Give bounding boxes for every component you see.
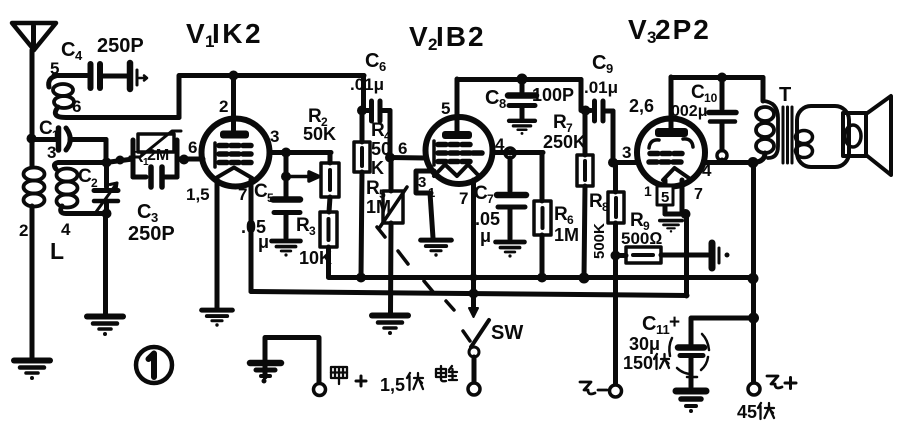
label + (A+) <box>356 376 366 386</box>
label C10 <box>691 82 718 105</box>
wire junction to wiper <box>284 152 289 176</box>
svg-text:C: C <box>137 201 151 223</box>
node R4/bus A <box>356 273 366 283</box>
wire grid junction to V2 pin6 <box>390 155 426 161</box>
wire antenna downlead <box>30 50 35 138</box>
svg-text:C: C <box>691 82 705 103</box>
svg-text:V: V <box>409 21 428 52</box>
label C6 <box>365 50 386 74</box>
resistor R6 <box>534 153 551 277</box>
svg-text:2P2: 2P2 <box>655 14 711 45</box>
terminal B- <box>610 385 622 397</box>
speaker <box>843 96 891 175</box>
label C11 + <box>642 312 680 337</box>
node primary/B+ junction <box>748 157 759 168</box>
node B+ rail corner <box>748 273 759 284</box>
label R8 <box>589 191 609 214</box>
label R9 <box>630 210 650 233</box>
svg-text:2: 2 <box>91 176 98 190</box>
wire R3 to bus <box>326 247 331 277</box>
svg-text:7: 7 <box>459 189 468 208</box>
label V2 1B2 <box>409 21 486 54</box>
bus A (B+ rail) <box>329 275 754 280</box>
svg-text:R: R <box>553 112 567 133</box>
resistor R1 <box>130 131 181 160</box>
dashed gang link R5-SW <box>377 227 454 310</box>
capacitor C11 (electrolytic) <box>669 318 753 387</box>
antenna jack symbol <box>130 63 147 89</box>
svg-text:C: C <box>474 183 488 204</box>
ground V3 filament <box>660 221 682 233</box>
inductor L winding 1-2 <box>24 138 45 358</box>
svg-text:1: 1 <box>644 183 652 199</box>
ground C7 <box>496 242 525 258</box>
node C10 junction <box>717 73 727 83</box>
node C8 junction <box>517 74 528 85</box>
svg-text:1: 1 <box>428 185 435 200</box>
wire C1 to tank top <box>104 140 109 163</box>
svg-text:V: V <box>628 14 647 45</box>
wire V2 pin4 <box>492 150 543 155</box>
tube V3 <box>637 77 705 187</box>
node C10/pin4 ring <box>717 151 727 161</box>
terminal B+ <box>748 383 760 395</box>
svg-text:6: 6 <box>188 138 197 157</box>
svg-text:C: C <box>365 50 379 72</box>
capacitor C7 <box>497 158 526 239</box>
label jia (A+) <box>331 367 347 384</box>
svg-text:V: V <box>186 18 205 49</box>
label R5 <box>366 178 386 201</box>
svg-text:6: 6 <box>72 97 81 116</box>
svg-text:IK2: IK2 <box>212 18 263 49</box>
svg-text:7: 7 <box>694 186 703 203</box>
node SW/bus A <box>470 274 478 282</box>
svg-text:2,6: 2,6 <box>629 96 654 116</box>
label C4 <box>61 39 83 63</box>
svg-text:C: C <box>78 166 92 187</box>
svg-text:150: 150 <box>623 353 653 373</box>
label R6 <box>554 204 574 227</box>
wire V1 filament to ground <box>215 179 220 308</box>
capacitor C5 <box>273 177 300 238</box>
ground antenna coil <box>14 361 50 381</box>
label R2 <box>308 106 328 129</box>
wire C6 to V2 grid junction <box>388 111 393 158</box>
ground C8 <box>509 121 535 135</box>
svg-text:3: 3 <box>418 174 426 191</box>
wire tank to R1 <box>106 159 133 163</box>
node R6/bus A <box>537 273 547 283</box>
svg-text:μ: μ <box>480 226 491 246</box>
svg-text:.01μ: .01μ <box>584 78 618 97</box>
capacitor C10 <box>709 78 736 150</box>
potentiometer R2 <box>321 153 339 198</box>
ground tuning capacitor <box>87 317 123 337</box>
label R7 <box>553 112 573 135</box>
label R1 2M <box>132 147 169 168</box>
svg-text:9: 9 <box>606 61 613 76</box>
label yi minus (B-) <box>580 382 607 394</box>
wire R1 to V1 grid <box>177 157 203 162</box>
svg-text:3: 3 <box>47 143 56 162</box>
label C1 <box>39 118 59 142</box>
switch SW <box>463 294 489 395</box>
label dianjian (power switch) <box>436 366 457 381</box>
capacitor C9 <box>595 101 614 121</box>
svg-text:+: + <box>669 312 680 333</box>
svg-text:.01μ: .01μ <box>350 75 384 94</box>
label C8 <box>485 87 506 111</box>
svg-text:45: 45 <box>737 402 757 422</box>
svg-text:L: L <box>50 238 64 264</box>
node R1 left <box>116 156 125 165</box>
label 150V (C11 value) <box>623 353 653 373</box>
capacitor C8 <box>508 79 536 119</box>
svg-text:2M: 2M <box>147 147 169 164</box>
ground C5 <box>272 241 301 257</box>
svg-text:R: R <box>630 210 644 231</box>
earphone jack symbol <box>712 243 730 268</box>
svg-text:7: 7 <box>238 185 247 204</box>
node tank top junction <box>102 158 112 168</box>
svg-text:SW: SW <box>491 322 523 344</box>
label .05u (C5 value) <box>241 217 269 252</box>
ground V2 cathode <box>421 240 452 257</box>
svg-text:1M: 1M <box>554 225 579 245</box>
svg-text:μ: μ <box>258 232 269 252</box>
node R7 junction <box>581 106 591 116</box>
node R7/bus A <box>579 273 590 284</box>
node tank bottom junction <box>102 209 112 219</box>
wire C2 to ground <box>103 214 108 314</box>
tube V2 <box>426 79 493 184</box>
wire V1 pin3 <box>269 150 331 155</box>
wire plate top bus <box>179 76 364 118</box>
label V1 1K2 <box>186 18 263 51</box>
wire pin7 to bus B corner <box>684 214 689 296</box>
svg-text:C: C <box>592 52 606 74</box>
svg-text:6: 6 <box>398 139 407 158</box>
label fu (volts) after 1.5 <box>407 373 423 390</box>
label V3 2P2 <box>628 14 711 47</box>
label C3 <box>137 201 158 225</box>
label 50K (R4 value) <box>371 139 391 178</box>
label fu (volts) after 45 <box>758 403 774 419</box>
inductor L winding 3-4 <box>54 163 106 214</box>
svg-text:1,5: 1,5 <box>380 375 405 395</box>
node wiper junction <box>281 172 291 182</box>
svg-text:K: K <box>371 158 384 178</box>
svg-text:IB2: IB2 <box>436 21 486 52</box>
ground A+ return <box>250 363 281 384</box>
resistor R9 <box>616 247 709 263</box>
svg-text:100P: 100P <box>532 85 574 105</box>
node pin7 junction <box>681 209 691 219</box>
svg-text:50K: 50K <box>303 124 336 144</box>
terminal A+ <box>314 384 326 396</box>
svg-text:R: R <box>366 178 380 199</box>
svg-text:7: 7 <box>487 192 494 206</box>
node C11/B+ junction <box>748 313 759 324</box>
wire V2 pin7 down to bus <box>471 180 476 296</box>
resistor R8 <box>608 163 624 255</box>
svg-text:5: 5 <box>441 99 450 118</box>
bus B (common rail) <box>251 292 687 296</box>
svg-text:C: C <box>485 87 499 109</box>
wire V3 pin5 down <box>663 180 668 214</box>
svg-text:002μ: 002μ <box>671 103 707 120</box>
label C9 <box>592 52 613 76</box>
boxed label 5 (V3 pin) <box>657 186 673 206</box>
svg-text:5: 5 <box>661 189 669 206</box>
wire V3 pin7 down <box>680 180 685 214</box>
svg-text:4: 4 <box>75 48 83 63</box>
svg-text:3: 3 <box>309 224 316 238</box>
svg-text:250K: 250K <box>543 132 586 152</box>
svg-text:2: 2 <box>19 221 28 240</box>
node V3 grid junction <box>608 158 618 168</box>
wire V2 plate top <box>457 77 581 82</box>
svg-text:3: 3 <box>270 127 279 146</box>
label C2 <box>78 166 98 190</box>
node C6/R4 junction <box>357 106 367 116</box>
wire A+ terminal to ground <box>265 338 319 384</box>
svg-text:C: C <box>39 118 53 139</box>
node R1 right <box>179 155 189 165</box>
capacitor C6 <box>362 101 390 121</box>
svg-text:R: R <box>371 120 385 141</box>
capacitor C2 (variable) <box>94 162 118 214</box>
svg-text:8: 8 <box>499 96 506 111</box>
ground V1 filament <box>202 310 233 327</box>
resistor R3 <box>320 212 337 247</box>
svg-text:30μ: 30μ <box>629 334 660 354</box>
wire grid junction to V3 pin3 <box>613 160 638 165</box>
node antenna/C1 junction <box>27 134 37 144</box>
svg-text:50: 50 <box>371 139 391 159</box>
ground R5 <box>372 316 408 336</box>
node C7 ring junction <box>505 148 515 158</box>
svg-text:T: T <box>779 84 791 106</box>
node R9 junction <box>611 251 621 261</box>
svg-text:500Ω: 500Ω <box>621 229 662 248</box>
transformer T primary <box>753 78 778 163</box>
svg-text:500K: 500K <box>591 223 608 259</box>
svg-text:250P: 250P <box>97 35 144 57</box>
transformer T secondary <box>796 106 850 167</box>
wire C9 drop <box>581 80 591 111</box>
potentiometer R2 wiper arrow <box>286 172 319 181</box>
wire V3 plate top <box>671 75 763 80</box>
node V2 grid junction <box>385 153 395 163</box>
svg-text:1: 1 <box>52 128 59 142</box>
V2 pins 3,1 loop <box>416 171 434 238</box>
svg-text:2: 2 <box>219 97 228 116</box>
wire R2 to R3 <box>329 197 330 212</box>
svg-text:250P: 250P <box>128 223 175 245</box>
capacitor C3 <box>133 158 177 187</box>
resistor R5 (variable, ganged to SW) <box>380 158 407 313</box>
label C7 <box>474 183 494 206</box>
wire V3 pin4 to B+ <box>705 160 753 163</box>
label fu (volts) after 150 <box>654 354 669 369</box>
svg-text:8: 8 <box>602 200 609 214</box>
node V1 plate junction <box>229 71 239 81</box>
svg-text:6: 6 <box>379 59 386 74</box>
node SW/bus B <box>469 289 479 299</box>
svg-text:1M: 1M <box>366 197 391 217</box>
capacitor C1 <box>32 128 106 150</box>
wire C9 to V3 grid <box>611 111 616 162</box>
label C5 <box>254 181 274 205</box>
svg-text:4: 4 <box>61 220 71 239</box>
svg-text:C: C <box>642 313 656 335</box>
capacitor C4 <box>54 64 127 88</box>
resistor R7 <box>577 110 593 278</box>
transformer T core <box>783 107 792 163</box>
svg-text:R: R <box>589 191 603 212</box>
tube V1 <box>202 75 270 187</box>
svg-text:3: 3 <box>622 143 631 162</box>
svg-text:R: R <box>554 204 568 225</box>
node pin3/C5 junction <box>281 148 291 158</box>
wire V1 pin7 down <box>249 180 254 292</box>
svg-text:C: C <box>254 181 268 202</box>
svg-text:1,5: 1,5 <box>186 185 210 204</box>
svg-text:R: R <box>296 215 310 236</box>
coil winding 5-6 (tickler) <box>49 76 179 118</box>
svg-text:5: 5 <box>267 191 274 205</box>
svg-text:C: C <box>61 39 75 61</box>
label R3 <box>296 215 316 238</box>
label yi plus (B+) <box>767 376 796 389</box>
antenna <box>12 23 56 50</box>
wire R8 junction to B-minus <box>613 255 618 385</box>
wire filament tie <box>665 212 686 217</box>
label .05u (C7 value) <box>475 209 500 246</box>
resistor R4 <box>354 110 370 277</box>
label R4 <box>371 120 391 143</box>
figure number 1 <box>136 347 172 383</box>
wire top bus corner down to C6 <box>361 76 366 110</box>
wire B+ riser <box>751 163 756 384</box>
ground C11 <box>676 391 706 413</box>
